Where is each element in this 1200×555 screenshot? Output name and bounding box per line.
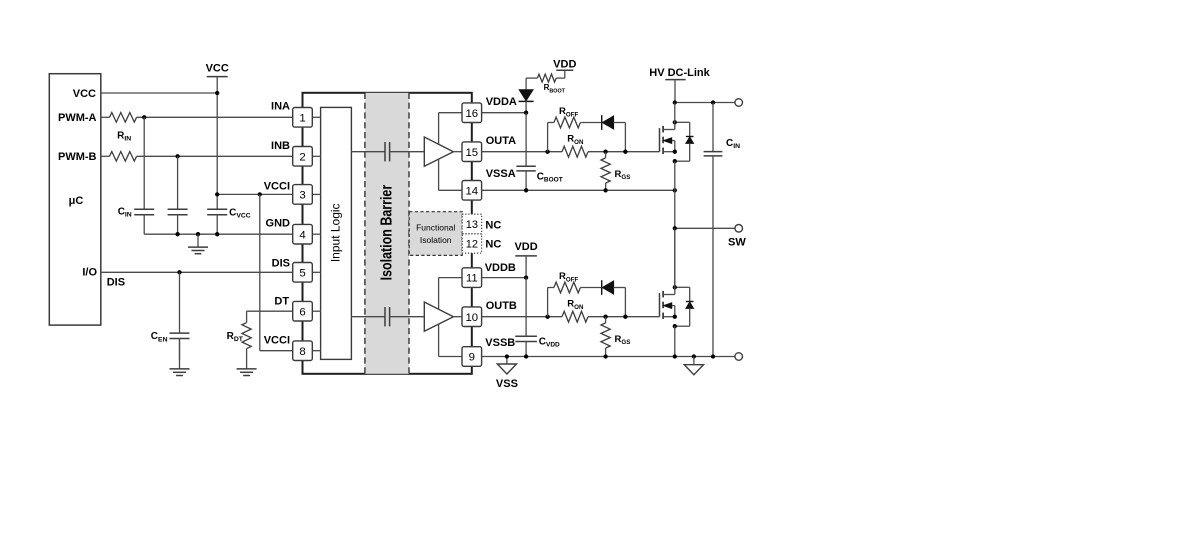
svg-text:OUTB: OUTB xyxy=(486,300,517,312)
pin 2 INB xyxy=(293,147,313,167)
wire HV top rail xyxy=(675,102,735,104)
svg-text:VSS: VSS xyxy=(496,378,518,390)
node body diode bottom xyxy=(673,159,677,163)
wire VSSA rail xyxy=(482,189,675,191)
wire gate branch B up xyxy=(547,288,549,317)
capacitor CIN HV xyxy=(712,103,714,152)
svg-text:INB: INB xyxy=(271,140,290,152)
svg-text:VDD: VDD xyxy=(514,241,537,253)
functional isolation box xyxy=(409,212,462,256)
svg-text:VSSA: VSSA xyxy=(486,168,516,180)
wire uC VCC to supply xyxy=(101,92,217,94)
driver buffer B xyxy=(424,302,453,331)
wire RON to gate xyxy=(588,151,660,153)
diode gate B xyxy=(601,280,603,295)
node rail VSS xyxy=(505,354,509,358)
svg-text:I/O: I/O xyxy=(82,266,97,278)
ground power xyxy=(693,357,695,365)
node PWM-B junction xyxy=(175,154,179,158)
svg-text:4: 4 xyxy=(299,229,305,241)
body diode branch xyxy=(675,286,690,288)
resistor RBOOT xyxy=(537,74,556,82)
capacitor isolation A xyxy=(384,142,386,161)
microcontroller block uC xyxy=(49,74,101,325)
terminal bottom xyxy=(735,353,743,361)
wire pin stubs to input logic xyxy=(312,116,320,118)
capacitor CIN xyxy=(143,117,145,209)
svg-text:11: 11 xyxy=(466,273,478,285)
svg-text:SW: SW xyxy=(728,236,746,248)
wire SW vertical xyxy=(674,161,676,287)
capacitor CVDD xyxy=(525,278,527,337)
node rail CIN xyxy=(711,354,715,358)
node branch A return xyxy=(623,150,627,154)
pin 9 VSSB xyxy=(462,347,482,367)
pin 11 VDDB xyxy=(462,268,482,288)
svg-text:1: 1 xyxy=(299,112,305,124)
svg-text:6: 6 xyxy=(299,306,305,318)
wire RON B to gate xyxy=(588,316,660,318)
ground CEN xyxy=(179,339,181,369)
wire source B to rail xyxy=(674,326,676,356)
ground input side xyxy=(197,234,199,247)
node rail source B xyxy=(673,354,677,358)
node VCC junction xyxy=(215,91,219,95)
node RGS B top xyxy=(603,315,607,319)
wire DT to RDT xyxy=(247,310,293,312)
diode bootstrap xyxy=(519,90,533,101)
capacitor bypass 2 xyxy=(177,156,179,209)
svg-text:15: 15 xyxy=(465,147,478,159)
svg-text:12: 12 xyxy=(466,239,478,251)
gate driver IC body xyxy=(303,93,472,374)
pin 16 VDDA xyxy=(462,103,482,123)
svg-text:PWM-A: PWM-A xyxy=(58,112,97,124)
wire drain vertical B xyxy=(674,228,676,294)
terminal HV DC-Link xyxy=(735,99,743,107)
svg-text:Isolation: Isolation xyxy=(420,235,452,245)
svg-text:2: 2 xyxy=(299,151,305,163)
wire driver B supply from pin11 xyxy=(439,277,462,279)
pin 5 DIS xyxy=(293,263,313,283)
wire ground rail input side xyxy=(144,233,293,235)
node source leadA xyxy=(673,150,677,154)
svg-text:NC: NC xyxy=(485,220,501,232)
wire bottom rail xyxy=(482,356,735,358)
pin 14 VSSA xyxy=(462,181,482,201)
resistor RGS A xyxy=(605,152,607,158)
resistor on PWM-B xyxy=(110,152,137,162)
svg-text:14: 14 xyxy=(465,185,478,197)
node VDDB junction xyxy=(524,275,528,279)
svg-text:13: 13 xyxy=(466,219,478,231)
node VCCI branch pin8 xyxy=(258,192,262,196)
svg-text:3: 3 xyxy=(299,190,305,202)
resistor RDT xyxy=(242,323,251,349)
node CBOOT bottom xyxy=(524,188,528,192)
svg-text:Input Logic: Input Logic xyxy=(328,203,342,262)
pin 13 NC xyxy=(462,214,481,234)
pin 4 GND xyxy=(293,224,313,244)
capacitor CEN xyxy=(179,272,181,333)
input logic block xyxy=(321,107,352,359)
node RGS A top xyxy=(603,150,607,154)
resistor RIN xyxy=(110,113,137,123)
node OUTB branch xyxy=(545,315,549,319)
svg-text:PWM-B: PWM-B xyxy=(58,151,97,163)
svg-text:9: 9 xyxy=(469,352,475,364)
svg-text:VDDB: VDDB xyxy=(485,262,516,274)
wire VCC supply vertical xyxy=(216,77,218,195)
svg-text:VSSB: VSSB xyxy=(485,337,515,349)
node body diode top xyxy=(673,120,677,124)
node body diode bottom xyxy=(673,324,677,328)
wire driver B return to pin9 xyxy=(438,324,440,356)
svg-text:DIS: DIS xyxy=(272,258,290,270)
node rail junction gnd xyxy=(196,232,200,236)
svg-text:VDDA: VDDA xyxy=(486,96,517,108)
node OUTA branch xyxy=(545,150,549,154)
svg-text:16: 16 xyxy=(465,108,478,120)
diode body xyxy=(686,136,694,138)
node DIS junction xyxy=(177,270,181,274)
node rail junction c2 xyxy=(175,232,179,236)
resistor ROFF B xyxy=(554,282,581,293)
wire driver A return to pin14 xyxy=(438,159,440,190)
wire channel B signal path xyxy=(351,316,385,318)
capacitor isolation B xyxy=(384,307,386,326)
resistor ROFF A xyxy=(554,117,581,128)
pin 8 VCCI xyxy=(293,341,313,361)
svg-text:10: 10 xyxy=(465,312,478,324)
terminal SW xyxy=(735,225,743,233)
svg-text:Functional: Functional xyxy=(416,223,455,233)
transistor MOSFET Q2 low-side xyxy=(659,293,661,317)
wire gate branch A up xyxy=(547,123,549,152)
svg-text:HV DC-Link: HV DC-Link xyxy=(649,67,710,79)
svg-text:DIS: DIS xyxy=(107,276,125,288)
wire VDDB pin11 xyxy=(482,277,526,279)
wire PWM-A lead xyxy=(101,116,110,118)
node VSSA to SW xyxy=(673,188,677,192)
node VCCI branch vcc xyxy=(215,192,219,196)
pin 10 OUTB xyxy=(462,307,482,327)
svg-text:5: 5 xyxy=(299,267,305,279)
resistor RON B xyxy=(562,311,588,322)
svg-text:VCCI: VCCI xyxy=(264,334,290,346)
wire SW line xyxy=(675,227,735,229)
node SW junction xyxy=(673,226,677,230)
svg-text:NC: NC xyxy=(485,239,501,251)
node rail junction cvcc xyxy=(215,232,219,236)
node HV rail drain xyxy=(673,100,677,104)
driver buffer A xyxy=(424,137,453,166)
pin 3 VCCI xyxy=(293,185,313,205)
node branch B return xyxy=(623,315,627,319)
transistor MOSFET Q1 high-side xyxy=(659,128,661,152)
wire I/O DIS to pin5 xyxy=(101,271,293,273)
wire VCCI pin3 xyxy=(217,193,293,195)
wire driver A supply from pin16 xyxy=(439,112,462,114)
pin 1 INA xyxy=(293,108,313,128)
wire VCCI to pin8 vertical xyxy=(259,194,261,350)
wire channel A signal path xyxy=(351,151,385,153)
svg-text:VCC: VCC xyxy=(206,63,229,75)
ground RDT xyxy=(246,349,248,369)
svg-text:VCC: VCC xyxy=(73,88,96,100)
resistor RON A xyxy=(562,146,588,157)
wire VDDA pin16 xyxy=(482,112,526,114)
wire drain vertical A xyxy=(674,103,676,130)
wire OUTA from pin15 xyxy=(482,151,562,153)
pin 12 NC xyxy=(462,234,481,253)
svg-text:8: 8 xyxy=(299,346,305,358)
svg-text:GND: GND xyxy=(266,217,291,229)
node PWM-A junction xyxy=(142,115,146,119)
svg-text:OUTA: OUTA xyxy=(486,135,516,147)
node rail CVDD xyxy=(524,354,528,358)
node body diode top xyxy=(673,285,677,289)
pin 15 OUTA xyxy=(462,142,482,162)
resistor RGS B xyxy=(605,317,607,323)
svg-text:VDD: VDD xyxy=(553,58,576,70)
svg-text:Isolation Barrier: Isolation Barrier xyxy=(378,184,396,280)
node source leadB xyxy=(673,315,677,319)
svg-text:VCCI: VCCI xyxy=(264,180,290,192)
svg-text:μC: μC xyxy=(69,195,84,207)
node HV rail CIN xyxy=(711,100,715,104)
node VDDA diode junction xyxy=(524,111,528,115)
capacitor CBOOT xyxy=(525,113,527,167)
node rail PGND xyxy=(692,354,696,358)
capacitor CVCC xyxy=(216,194,218,209)
node RGS A bottom xyxy=(603,188,607,192)
node rail RGS B xyxy=(603,354,607,358)
diode body xyxy=(686,301,694,303)
svg-text:DT: DT xyxy=(274,296,289,308)
pin 6 DT xyxy=(293,301,313,321)
body diode branch xyxy=(675,121,690,123)
wire OUTB from pin10 xyxy=(482,316,562,318)
ground VSS symbol xyxy=(506,357,508,365)
wire PWM-B lead xyxy=(101,155,110,157)
svg-text:INA: INA xyxy=(271,100,290,112)
wire PWM-B to pin INB xyxy=(137,155,293,157)
diode gate A xyxy=(601,115,603,130)
isolation barrier band xyxy=(365,93,409,374)
wire PWM-A to pin INA xyxy=(137,116,293,118)
